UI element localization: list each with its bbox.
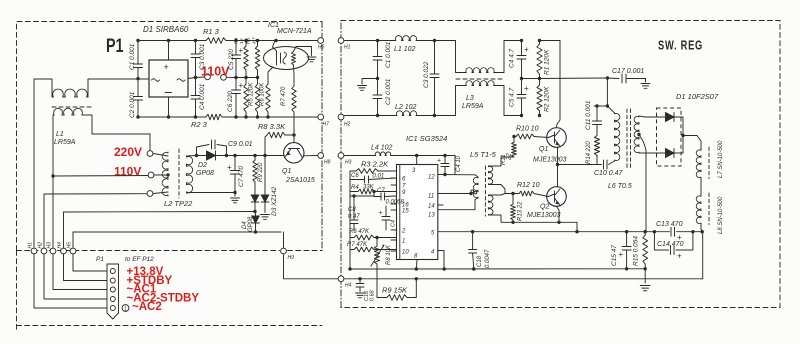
svg-text:R6 100K: R6 100K xyxy=(260,82,266,106)
svg-text:C3 0.022: C3 0.022 xyxy=(423,61,430,88)
110V selector terminals xyxy=(196,76,205,79)
wires H1-H5 to P1 connector xyxy=(34,254,107,308)
connector H7 xyxy=(318,114,324,120)
svg-text:R9 220: R9 220 xyxy=(258,162,264,182)
IC pin numbers left xyxy=(391,177,397,179)
IC pin 8 bottom xyxy=(415,260,418,270)
connector H2 right xyxy=(338,114,344,120)
wire rail down to Q1 xyxy=(557,41,561,128)
svg-text:10: 10 xyxy=(402,250,409,256)
svg-text:R1 120K: R1 120K xyxy=(544,49,551,75)
capacitor C1 0.001 swreg xyxy=(377,41,379,57)
svg-text:H9: H9 xyxy=(288,255,295,261)
inductor L7 SN-10-500 xyxy=(683,136,701,150)
svg-text:MJE13003: MJE13003 xyxy=(527,212,561,219)
svg-text:C4 0.001: C4 0.001 xyxy=(199,83,206,110)
rectifier diode a xyxy=(666,113,675,122)
svg-text:R5: R5 xyxy=(246,38,252,44)
svg-text:0.0068: 0.0068 xyxy=(386,200,405,206)
wire x455 drop xyxy=(454,156,456,175)
svg-text:MJE13003: MJE13003 xyxy=(533,157,567,164)
connector P1 body xyxy=(107,264,119,319)
capacitor C17 0.001 xyxy=(607,77,619,80)
wire H4 bus y279 xyxy=(344,278,702,280)
wire top bus to opto/H6 xyxy=(226,40,317,42)
svg-text:H6: H6 xyxy=(318,45,325,51)
L6 core dashed xyxy=(626,109,628,168)
resistor R14 220 snubber xyxy=(594,136,599,156)
resistor R2 3 xyxy=(206,114,222,120)
wire drop H2 xyxy=(43,194,45,247)
rectifier diode b xyxy=(666,149,675,158)
L6 secondary top wire xyxy=(639,116,645,117)
svg-text:H1: H1 xyxy=(344,45,351,51)
svg-text:R8 10K: R8 10K xyxy=(386,244,392,265)
svg-text:R8 3.3K: R8 3.3K xyxy=(258,122,286,131)
svg-text:to EF P12: to EF P12 xyxy=(125,256,154,263)
bridge right lead to 110V node xyxy=(188,78,196,79)
svg-text:R5 120K: R5 120K xyxy=(249,82,255,106)
svg-text:P1: P1 xyxy=(106,36,124,57)
transistor Q1 MJE13003 xyxy=(547,128,567,148)
transformer L2 TP22 primary xyxy=(162,152,168,196)
resistor R13 22 xyxy=(512,194,514,205)
svg-text:R6 47K: R6 47K xyxy=(349,229,370,235)
inductor L8 SN-10-500 xyxy=(700,178,702,196)
svg-text:R4: R4 xyxy=(351,185,359,191)
svg-text:+: + xyxy=(379,210,383,217)
svg-text:D1 10F2S07: D1 10F2S07 xyxy=(676,92,719,101)
wire Q1 collector to H8 xyxy=(304,155,318,157)
svg-text:33K: 33K xyxy=(363,185,375,191)
svg-text:C7: C7 xyxy=(377,188,385,194)
wire return line y232 xyxy=(73,231,281,233)
wire H1 bus xyxy=(344,40,395,42)
connector H5 xyxy=(70,248,76,254)
wire top bus to switch stage xyxy=(540,40,561,42)
capacitor C15 47 xyxy=(626,232,628,247)
svg-text:4.7: 4.7 xyxy=(252,37,258,44)
svg-text:~AC2: ~AC2 xyxy=(132,301,162,313)
terminal AC common xyxy=(147,191,153,197)
svg-text:IC1 SG3524: IC1 SG3524 xyxy=(406,134,447,143)
svg-text:2: 2 xyxy=(401,229,406,235)
wire L1 top out xyxy=(88,79,149,97)
svg-text:D3 XZ142: D3 XZ142 xyxy=(271,186,278,216)
svg-text:C2 0.001: C2 0.001 xyxy=(129,91,136,118)
L3 core dashed xyxy=(456,78,503,80)
left rail xyxy=(349,171,351,269)
svg-text:R3 2.2K: R3 2.2K xyxy=(361,160,389,169)
svg-text:R2 3: R2 3 xyxy=(191,120,208,129)
svg-text:H4: H4 xyxy=(57,242,63,249)
capacitor C6 220 xyxy=(235,78,237,91)
capacitor C13 470 xyxy=(670,227,672,236)
svg-text:110V: 110V xyxy=(201,65,230,79)
terminal 220V xyxy=(147,151,153,157)
resistor R6 100K xyxy=(268,67,273,84)
zener D3 XZ142 a xyxy=(251,195,259,202)
svg-text:+: + xyxy=(524,84,529,93)
svg-text:Q2: Q2 xyxy=(540,204,549,211)
capacitor C18 0.0047 xyxy=(472,232,474,250)
svg-text:R4: R4 xyxy=(234,38,240,44)
L5 right bottom winding xyxy=(489,195,493,215)
wire ground rail y269 xyxy=(350,268,645,270)
IC pin11 wire xyxy=(438,193,471,195)
svg-text:R7 47K: R7 47K xyxy=(347,242,368,248)
svg-text:R13 22: R13 22 xyxy=(518,201,524,221)
svg-text:L2 102: L2 102 xyxy=(395,104,417,111)
wire 110V line xyxy=(53,175,148,178)
wire L2 sec bottom xyxy=(187,192,192,195)
svg-text:L4 102: L4 102 xyxy=(371,145,393,152)
capacitor C7 470 xyxy=(233,154,236,157)
svg-text:2SA1015: 2SA1015 xyxy=(285,177,315,184)
connector H3 right xyxy=(338,153,344,159)
L6 secondary bottom wire xyxy=(639,152,645,154)
svg-text:H5: H5 xyxy=(67,242,73,249)
connector H8 xyxy=(318,153,324,159)
rectifier D1 dashed box xyxy=(657,108,682,166)
resistor R7 470 xyxy=(293,65,296,86)
svg-text:L7 SN-10-500: L7 SN-10-500 xyxy=(718,140,724,178)
svg-text:14: 14 xyxy=(428,204,435,210)
capacitor C4 4.7 xyxy=(521,41,523,56)
wire bottom bus to H7 xyxy=(222,116,317,118)
wire Q1 emitter / Q2 collector xyxy=(557,147,559,186)
L5 polarity dots xyxy=(471,190,474,193)
connector H1 right xyxy=(338,38,344,44)
wire emitter return riser xyxy=(576,222,578,231)
svg-text:0.68: 0.68 xyxy=(370,289,376,301)
svg-text:C7 470: C7 470 xyxy=(238,166,245,187)
svg-text:H3: H3 xyxy=(345,160,352,166)
connector H2 xyxy=(41,248,47,254)
capacitor C9 0.01 across D2 xyxy=(197,145,210,156)
svg-text:0.0047: 0.0047 xyxy=(485,249,491,268)
svg-text:L8 SN-10-500: L8 SN-10-500 xyxy=(718,196,724,234)
IC pin13 wire from L5 bottom xyxy=(438,198,478,210)
connector H9 xyxy=(281,248,287,254)
IC pin12 wire to L5 xyxy=(438,174,475,176)
bridge rectifier D1 SIRBA60 xyxy=(149,60,188,97)
resistor R4 33K xyxy=(350,191,358,193)
opto photoresistor top to ground xyxy=(294,47,312,56)
svg-text:R1 3: R1 3 xyxy=(203,27,220,36)
node 110V tap xyxy=(51,174,54,177)
svg-text:C5 220: C5 220 xyxy=(228,49,235,70)
opto coupler IC1 MCN-721A xyxy=(264,47,309,70)
wire bottom bus xyxy=(138,116,206,118)
svg-text:H2: H2 xyxy=(344,122,351,128)
svg-text:22: 22 xyxy=(507,153,513,161)
wire H2 bus xyxy=(344,115,396,117)
svg-text:C15 47: C15 47 xyxy=(611,245,618,266)
resistor R5 lower xyxy=(257,78,259,85)
svg-text:SW. REG: SW. REG xyxy=(658,39,703,53)
wire 220V to L2 xyxy=(153,154,168,157)
svg-text:R10 10: R10 10 xyxy=(516,126,539,133)
resistor R5 120K upper xyxy=(257,41,259,47)
zener D3 XZ142 b xyxy=(263,154,266,157)
capacitor C4 0.001 xyxy=(195,78,197,96)
svg-text:C14 470: C14 470 xyxy=(657,241,684,248)
wire top DC bus xyxy=(138,40,206,42)
svg-text:D2: D2 xyxy=(198,162,207,169)
wire H9 drop xyxy=(283,232,285,247)
resistor R3 xyxy=(350,170,356,172)
capacitor C10 0.47 xyxy=(603,160,605,169)
svg-text:P1: P1 xyxy=(96,256,104,263)
svg-text:1: 1 xyxy=(402,239,405,245)
svg-text:R7 470: R7 470 xyxy=(281,86,287,106)
svg-text:C1 0.001: C1 0.001 xyxy=(129,43,136,70)
svg-text:+: + xyxy=(677,252,682,261)
svg-text:L1: L1 xyxy=(56,131,64,138)
resistor R15 0.054 xyxy=(644,232,646,235)
svg-text:1K: 1K xyxy=(239,37,245,44)
transistor Q1 2SA1015 xyxy=(284,143,304,163)
svg-text:H8: H8 xyxy=(324,160,331,166)
capacitor C4 10 xyxy=(444,156,446,164)
diode D2 GP08 xyxy=(196,155,207,157)
svg-text:C4 10: C4 10 xyxy=(456,155,462,172)
svg-text:H7: H7 xyxy=(323,122,330,128)
wire C7 ground line xyxy=(191,192,235,194)
L5 core dashed xyxy=(484,166,486,216)
wire L1 bottom to H3 drop xyxy=(52,115,54,247)
svg-text:C2 0.001: C2 0.001 xyxy=(385,78,392,105)
capacitor C2 0.001 xyxy=(137,79,139,97)
ground for D3 xyxy=(261,214,270,216)
svg-text:15: 15 xyxy=(402,209,409,215)
capacitor C6 0.01 xyxy=(350,179,365,181)
capacitor C16 0.68 xyxy=(358,277,361,280)
svg-text:1: 1 xyxy=(124,307,127,313)
svg-text:L3: L3 xyxy=(466,95,474,102)
wire half-bridge mid line y164 xyxy=(558,164,602,166)
svg-text:C1 0.001: C1 0.001 xyxy=(385,41,392,68)
terminal 110V xyxy=(148,172,154,178)
connector H4 xyxy=(61,248,67,254)
capacitor C14 470 loop xyxy=(654,232,668,250)
L1 core dashed xyxy=(52,106,93,108)
svg-text:MCN-721A: MCN-721A xyxy=(277,28,312,35)
svg-text:+: + xyxy=(227,163,232,172)
wire left vertical to H1 xyxy=(33,79,35,247)
SW.REG enclosure dashed border xyxy=(340,21,342,308)
svg-text:L5 T1-5: L5 T1-5 xyxy=(470,150,497,159)
svg-text:C13 470: C13 470 xyxy=(656,221,683,228)
svg-text:13: 13 xyxy=(428,213,435,219)
wire mid-rail to primary xyxy=(540,77,608,80)
IC pin 3 top xyxy=(416,156,418,165)
svg-text:C8: C8 xyxy=(348,207,356,213)
pot R8 10K xyxy=(376,238,378,247)
svg-text:C10 0.47: C10 0.47 xyxy=(594,170,624,177)
svg-text:C18: C18 xyxy=(477,255,483,267)
resistor R11 22 xyxy=(512,142,517,157)
rectifier output join xyxy=(682,117,684,153)
transistor Q2 MJE13003 xyxy=(547,187,567,207)
wire primary feed y106 xyxy=(594,105,607,107)
wire 110V node to R cols xyxy=(236,77,258,79)
transformer L6 primary xyxy=(607,106,614,113)
capacitor C7 0.0068 xyxy=(374,196,381,198)
ground output xyxy=(640,285,650,287)
capacitor C3 0.001 xyxy=(195,41,197,55)
wire H3 bus xyxy=(344,155,375,157)
svg-text:D1 SIRBA60: D1 SIRBA60 xyxy=(143,25,189,34)
L5 left winding xyxy=(473,177,478,198)
svg-text:GP08: GP08 xyxy=(196,170,214,177)
svg-text:H2: H2 xyxy=(38,242,44,249)
resistor R4 120K upper xyxy=(245,41,247,47)
wire L1 bottom out to 220V xyxy=(83,115,150,150)
connector H4 right xyxy=(338,276,344,282)
wire L2 sec top xyxy=(187,155,196,158)
IC1 SG3524 body xyxy=(397,165,438,260)
inductor L1 102 xyxy=(395,36,417,41)
resistor R1 3 xyxy=(206,38,226,44)
capacitor C11 0.001 snubber xyxy=(596,106,598,121)
P1 enclosure dashed border xyxy=(17,22,323,251)
diode D4 GP08 xyxy=(255,212,257,217)
P1 pins xyxy=(110,269,115,274)
svg-text:L1 102: L1 102 xyxy=(394,46,416,53)
IC pin 4 xyxy=(438,251,444,270)
svg-text:GP08: GP08 xyxy=(248,216,254,232)
svg-text:H3: H3 xyxy=(47,242,53,249)
choke L3 LR59A top xyxy=(456,41,466,73)
svg-text:R2 120K: R2 120K xyxy=(544,86,551,112)
svg-text:+: + xyxy=(619,250,624,259)
wire output bus y231 xyxy=(438,231,670,233)
resistor R1 120K swreg xyxy=(539,41,541,45)
capacitor C2 0.001 swreg xyxy=(377,79,379,96)
connector H3 xyxy=(50,248,56,254)
svg-text:+: + xyxy=(164,62,169,72)
svg-text:0.01: 0.01 xyxy=(373,174,385,180)
svg-text:R15 0.054: R15 0.054 xyxy=(633,236,640,266)
resistor R2 120K swreg xyxy=(539,79,541,86)
svg-text:Q1: Q1 xyxy=(282,168,291,175)
L5 right top to R11 xyxy=(489,157,515,166)
svg-text:R14 220: R14 220 xyxy=(586,141,592,164)
svg-text:L2 TP22: L2 TP22 xyxy=(164,199,193,208)
capacitor C1 0.001 xyxy=(137,41,139,65)
inductor L1 top winding xyxy=(52,89,88,97)
L6 center tap to R15 xyxy=(637,133,640,136)
svg-text:220V: 220V xyxy=(114,145,142,159)
svg-text:+: + xyxy=(239,46,244,55)
svg-text:+: + xyxy=(437,158,441,165)
svg-text:C17 0.001: C17 0.001 xyxy=(612,68,644,75)
svg-text:H1: H1 xyxy=(28,242,34,249)
svg-text:+: + xyxy=(239,81,244,90)
svg-text:+: + xyxy=(524,45,529,54)
P1 internal dashed boundary xyxy=(17,250,280,252)
svg-text:C4 4.7: C4 4.7 xyxy=(509,48,516,68)
svg-text:C11 0.001: C11 0.001 xyxy=(585,100,592,130)
transformer L2 secondary xyxy=(187,156,193,193)
svg-text:C4: C4 xyxy=(391,220,397,227)
svg-text:LR59A: LR59A xyxy=(54,139,76,146)
svg-text:R12 10: R12 10 xyxy=(517,182,540,189)
svg-text:C6 220: C6 220 xyxy=(227,91,234,112)
L2 core dashed xyxy=(178,149,180,198)
svg-text:12: 12 xyxy=(428,175,435,181)
wire output right riser xyxy=(702,232,704,279)
wire return line y212 xyxy=(64,211,256,214)
bridge + lead xyxy=(168,41,170,61)
L5 right bottom / Q2 emitter line xyxy=(489,215,578,222)
L5 right top winding xyxy=(489,166,493,185)
ground stub xyxy=(362,78,378,80)
small electrolytic near pin15 xyxy=(385,206,387,217)
resistor R4 lower xyxy=(245,78,247,85)
svg-text:Q1: Q1 xyxy=(539,146,548,153)
wire L8 out xyxy=(701,224,702,232)
svg-text:C6: C6 xyxy=(351,173,359,179)
svg-text:L6 T0.5: L6 T0.5 xyxy=(608,183,632,190)
bridge - lead xyxy=(168,97,170,117)
resistor R9 220 xyxy=(253,154,256,157)
svg-text:11: 11 xyxy=(428,194,434,200)
pin1 indicator circle xyxy=(122,305,129,312)
inductor L2 102 xyxy=(396,111,417,116)
wire C10 to primary bottom xyxy=(609,161,615,165)
wire cap mid junction xyxy=(522,78,540,80)
svg-text:110V: 110V xyxy=(114,165,141,179)
wire L1 top lead xyxy=(34,79,52,97)
transformer L6 secondary xyxy=(634,116,639,153)
connector H6 xyxy=(318,38,324,44)
node C1C2 junction xyxy=(136,77,139,80)
capacitor C5 4.7 xyxy=(521,79,523,95)
capacitor C5 220 xyxy=(235,41,237,56)
svg-text:LR59A: LR59A xyxy=(462,103,484,110)
inductor L4 102 xyxy=(375,152,391,156)
svg-text:H4: H4 xyxy=(345,283,352,289)
inductor L1 bottom winding xyxy=(53,108,83,115)
connector H1 xyxy=(31,248,37,254)
wire common line xyxy=(44,193,147,195)
capacitor C3 0.022 xyxy=(434,41,436,75)
svg-text:C5 4.7: C5 4.7 xyxy=(509,87,516,107)
svg-text:R9 15K: R9 15K xyxy=(382,286,408,295)
svg-text:C9 0.01: C9 0.01 xyxy=(228,141,253,148)
L5 right mid to R12 xyxy=(489,185,520,194)
choke L3 bottom xyxy=(456,86,466,116)
